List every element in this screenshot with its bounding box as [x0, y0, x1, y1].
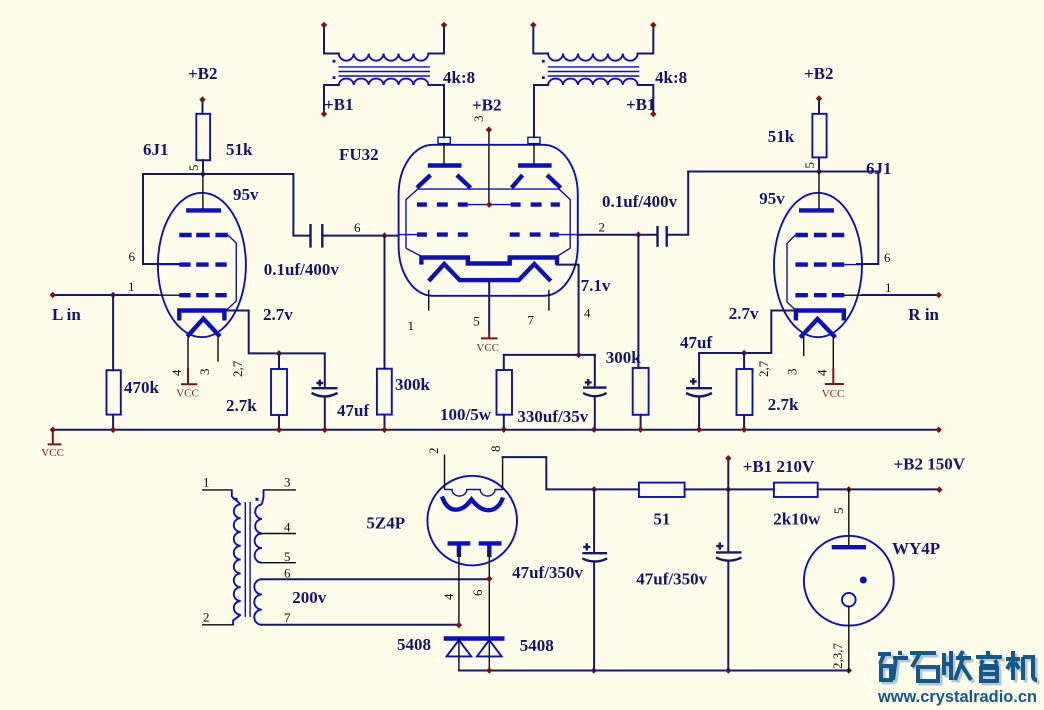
svg-text:R in: R in	[908, 305, 939, 324]
tube FU32 (dual beam tetrode)	[339, 96, 611, 359]
T3 secondary winding 3-4	[255, 504, 262, 533]
resistor 2.7k left	[271, 369, 287, 415]
wire cathode node to 2.7k	[278, 353, 280, 369]
T1 core	[339, 67, 431, 76]
FU32 anode bar left	[428, 163, 462, 167]
node rail cap2	[725, 667, 731, 674]
FU32 anode bar right	[518, 163, 552, 167]
FU32 cathode network	[440, 355, 607, 430]
pin 3 stub left 6J1	[217, 337, 219, 361]
svg-text:2,7: 2,7	[230, 360, 245, 377]
power port VCC right 6J1	[825, 368, 844, 384]
plus sign 47uf right	[690, 378, 697, 385]
svg-text:3: 3	[284, 475, 291, 490]
node rail WY4P	[846, 667, 852, 674]
power port VCC under FU32	[481, 331, 498, 338]
5Z4P cathode wave	[442, 497, 503, 511]
left 6J1 cathode bracket	[179, 311, 224, 321]
svg-text:5: 5	[802, 162, 817, 169]
wire coupling to anode node to screen feedback right	[688, 172, 878, 265]
svg-text:1: 1	[885, 280, 892, 295]
5Z4P heater line	[445, 490, 504, 497]
pin 4 wire FU32 cathode tap	[557, 265, 579, 355]
wire down to 330uf	[594, 355, 596, 387]
wire cathode node to 47uf	[279, 353, 325, 387]
resistor 300k left	[377, 369, 392, 415]
svg-text:VCC: VCC	[476, 342, 499, 354]
svg-text:470k: 470k	[124, 378, 160, 397]
WY4P envelope	[804, 536, 894, 626]
pin 4 wire T3	[262, 533, 295, 535]
tube 5Z4P rectifier	[366, 446, 639, 639]
pin 3 wire FU32 screen feed	[488, 133, 490, 205]
right 6J1 grid2 dashes	[795, 262, 844, 266]
svg-text:5: 5	[831, 508, 846, 515]
svg-text:+B2 150V: +B2 150V	[894, 455, 966, 474]
svg-text:2: 2	[203, 610, 210, 625]
svg-text:VCC: VCC	[822, 388, 845, 400]
node left 300k tap	[381, 232, 387, 239]
node right cathode junction	[741, 350, 747, 357]
5Z4P anode stems	[459, 543, 489, 557]
wire cap1 bottom	[593, 562, 595, 671]
watermark char kuang	[878, 651, 908, 680]
node +B1 junction	[725, 486, 731, 493]
node T1 top-left	[321, 22, 327, 29]
resistor 2.7k right	[737, 369, 753, 415]
svg-text:+B2: +B2	[188, 64, 218, 83]
svg-text:2,3,7: 2,3,7	[830, 643, 845, 670]
svg-text:4k:8: 4k:8	[443, 68, 475, 87]
node right anode	[816, 168, 822, 175]
svg-text:7.1v: 7.1v	[581, 276, 611, 295]
node WY4P top junction	[846, 486, 852, 493]
right 6J1 channel	[578, 64, 942, 430]
svg-text:4: 4	[441, 593, 456, 600]
wire 2.7k to bus	[278, 415, 280, 430]
T2 phase dots	[542, 60, 545, 63]
FU32 beam shield outline	[406, 189, 570, 248]
wire cap1 top	[593, 489, 595, 552]
svg-text:+B1 210V: +B1 210V	[743, 457, 815, 476]
node T2 top-right	[650, 22, 656, 29]
capacitor 47uf/350v second	[716, 551, 742, 553]
FU32 control grid dashes left	[417, 232, 468, 236]
wire cap2 bottom	[727, 561, 729, 671]
right 6J1 cathode bracket	[796, 311, 844, 321]
svg-text:www.crystalradio.cn: www.crystalradio.cn	[877, 687, 1037, 706]
left 6J1 grid2 dashes	[179, 262, 226, 266]
node bus left end	[50, 427, 56, 434]
svg-text:+B2: +B2	[804, 64, 834, 83]
left 6J1 grid2 pin link	[158, 264, 179, 266]
watermark char shou	[944, 651, 971, 680]
node T3-6 to 5Z4P-6	[486, 575, 492, 582]
capacitor 47uf right	[686, 387, 712, 389]
wire 51k to anode node right	[818, 157, 820, 171]
diode D2 5408	[477, 640, 502, 656]
right 6J1 anode bar	[799, 208, 834, 212]
node +B1 terminal	[725, 455, 731, 462]
wire T2 bottom-left lead to FU32 anode	[534, 85, 548, 137]
resistor 100/5w	[497, 370, 513, 415]
plus sign 330uf	[585, 379, 592, 386]
wire anode node to coupling cap	[203, 174, 311, 236]
WY4P anode bar	[832, 545, 866, 549]
wire 470k to bus	[112, 415, 114, 430]
5Z4P envelope	[427, 476, 517, 566]
node +B2 right	[816, 95, 822, 102]
T1 secondary winding	[339, 79, 429, 85]
wire 51k to anode node	[202, 160, 204, 174]
svg-text:51k: 51k	[226, 140, 253, 159]
node R in terminal	[936, 292, 942, 299]
plus sign cap2	[716, 543, 723, 550]
pin 5 wire FU32	[488, 280, 490, 331]
FU32 screen grid dashes right	[511, 202, 560, 206]
right 6J1 grid2 pin link	[844, 264, 862, 266]
pin 4 wire left 6J1	[187, 337, 189, 368]
left 6J1 channel	[50, 64, 431, 430]
svg-text:VCC: VCC	[176, 388, 199, 400]
5Z4P anode bar right	[479, 541, 502, 545]
diode D1 5408	[447, 640, 472, 656]
right 6J1 heater	[800, 319, 835, 338]
capacitor 0.1uf/400v left	[311, 224, 323, 248]
node T3-7 to 5Z4P-4	[456, 622, 462, 629]
svg-text:2: 2	[599, 220, 606, 235]
capacitor 0.1uf/400v right	[658, 226, 667, 247]
svg-text:3: 3	[197, 369, 212, 376]
right 6J1 grid1 pin link	[844, 294, 862, 296]
FU32 screen grid center link	[468, 204, 511, 206]
transformer T2 output 4k:8 right	[530, 22, 687, 138]
wire negative rail	[459, 670, 849, 672]
left 6J1 heater	[187, 319, 220, 337]
svg-text:95v: 95v	[759, 189, 785, 208]
left 6J1 anode pin	[202, 174, 204, 208]
T3 core	[245, 502, 250, 617]
T3 secondary winding 6-7 200v	[254, 579, 262, 625]
node bus 47uf right	[696, 426, 702, 433]
right 6J1 grid1 dashes	[795, 293, 844, 297]
svg-text:47uf/350v: 47uf/350v	[512, 563, 583, 582]
T1 primary winding	[339, 54, 429, 61]
pin 2 wire T3	[203, 624, 233, 626]
resistor 51	[639, 483, 685, 497]
node +B2 terminal	[936, 486, 942, 493]
wire +B1 stub	[727, 461, 729, 489]
resistor 470k	[107, 370, 121, 414]
watermark char shi	[910, 653, 938, 681]
svg-text:1: 1	[203, 475, 210, 490]
pins 2,3,7 wire WY4P	[848, 607, 850, 671]
node rail D2	[486, 667, 492, 674]
wire cathode node to 47uf right	[699, 353, 744, 388]
FU32 beam plate diagonals	[417, 175, 431, 188]
svg-text:47uf: 47uf	[680, 333, 712, 352]
node T1 +B1	[321, 111, 327, 118]
FU32 control grid dashes right	[510, 232, 559, 236]
pin 4 wire 5Z4P	[458, 551, 460, 625]
T3 secondary top lead	[262, 490, 264, 505]
pin 1 stub FU32	[428, 291, 430, 311]
right 6J1 anode pin	[818, 172, 820, 209]
wire down to left 300k	[384, 236, 386, 369]
negative rail	[459, 667, 852, 674]
wire cap to FU32 grid	[322, 235, 398, 237]
watermark char yin	[976, 651, 1002, 681]
resistor 2k10w	[774, 483, 818, 497]
left 6J1 grid3-cathode link	[226, 235, 236, 311]
svg-text:200v: 200v	[292, 588, 327, 607]
node FU32 screen junction	[486, 201, 492, 208]
T3 primary top lead	[232, 490, 241, 505]
power port VCC left 6J1	[181, 368, 197, 384]
pin 4 wire right 6J1	[832, 337, 834, 368]
right 6J1 grid3 dashes	[795, 233, 844, 237]
wire T2 bottom-right lead to +B1	[638, 85, 654, 114]
svg-text:47uf: 47uf	[337, 401, 369, 420]
svg-text:4: 4	[169, 369, 184, 376]
wire 7.1v node rail	[504, 354, 595, 356]
T3 primary bottom lead	[233, 615, 241, 625]
svg-text:+B1: +B1	[324, 95, 354, 114]
wire cap2 top	[727, 489, 729, 551]
T2 primary winding	[548, 54, 638, 61]
svg-text:5408: 5408	[520, 636, 554, 655]
svg-text:3: 3	[785, 369, 800, 376]
svg-text:7: 7	[528, 313, 535, 328]
wire 2.7k to bus right	[743, 415, 745, 430]
5Z4P anode bar left	[448, 541, 471, 545]
svg-text:VCC: VCC	[41, 447, 64, 459]
FU32 anode pin square right	[528, 137, 540, 143]
wire T1 top-left lead	[324, 25, 339, 54]
svg-text:6J1: 6J1	[143, 140, 169, 159]
capacitor 47uf/350v first	[582, 552, 607, 554]
WY4P getter dot	[860, 577, 867, 584]
svg-text:FU32: FU32	[339, 145, 379, 164]
node B+ cap1	[591, 486, 597, 493]
wire left 300k to bus	[384, 415, 386, 430]
resistor 51k left	[196, 114, 210, 160]
svg-text:300k: 300k	[606, 348, 642, 367]
svg-text:5: 5	[284, 549, 291, 564]
wire 2k10w to +B2	[818, 488, 940, 490]
wire right 300k to bus	[638, 368, 640, 430]
svg-text:0.1uf/400v: 0.1uf/400v	[264, 260, 340, 279]
watermark logo (site mark, not circuit)	[877, 651, 1039, 706]
wire cap to feedback riser right	[667, 172, 689, 235]
T1 phase dots	[333, 60, 336, 63]
svg-text:2.7v: 2.7v	[263, 305, 293, 324]
wire 47uf to bus right	[698, 397, 700, 430]
node right 300k tap	[635, 231, 641, 238]
FU32 envelope	[399, 145, 578, 296]
wire FU32 grid to cap right	[578, 234, 658, 236]
filter section	[512, 455, 966, 671]
svg-text:4: 4	[284, 520, 291, 535]
svg-text:5: 5	[473, 314, 480, 329]
svg-text:2: 2	[426, 448, 441, 455]
node bus 2.7k left	[276, 427, 282, 434]
node bus 300k left	[381, 427, 387, 434]
right 6J1 cathode pin wire	[744, 311, 796, 354]
svg-text:330uf/35v: 330uf/35v	[517, 407, 588, 426]
tube WY4P regulator	[804, 489, 940, 670]
node rail cap1	[591, 667, 597, 674]
svg-text:6: 6	[470, 589, 485, 596]
diode cathode bar	[444, 636, 505, 640]
wire anode node to screen feedback	[143, 174, 203, 264]
wire 51 to B1 node	[685, 488, 774, 490]
wire T1 bottom-left lead to +B1	[324, 85, 339, 114]
FU32 anode lead left	[443, 144, 445, 164]
wire T2 top-right lead	[638, 25, 654, 54]
svg-text:51k: 51k	[768, 127, 795, 146]
svg-text:51: 51	[653, 510, 670, 529]
node T2 top-left	[530, 22, 536, 29]
power port VCC bus left	[48, 430, 62, 445]
wire cathode node to 2.7k right	[743, 353, 745, 369]
svg-text:6: 6	[884, 250, 891, 265]
FU32 grid pin links left and right	[399, 234, 578, 236]
wire +B2 to 51k right	[818, 101, 820, 114]
pin 8 wire 5Z4P to filter	[502, 457, 504, 489]
svg-text:2.7v: 2.7v	[729, 304, 759, 323]
node bus 100/5w	[501, 426, 507, 433]
left 6J1 cathode pin wire	[226, 311, 279, 354]
svg-text:2.7k: 2.7k	[226, 396, 257, 415]
node bus right end	[936, 427, 942, 434]
svg-text:300k: 300k	[395, 375, 431, 394]
right 6J1 grid3-cathode link	[787, 235, 796, 311]
svg-text:2k10w: 2k10w	[773, 510, 821, 529]
svg-text:2,7: 2,7	[756, 360, 771, 377]
pin 5 wire T3	[262, 562, 295, 564]
transformer T3 power	[203, 475, 490, 626]
wire down to 100/5w	[503, 355, 505, 370]
svg-text:3: 3	[471, 116, 486, 123]
diodes 5408	[397, 635, 554, 671]
svg-text:L in: L in	[52, 305, 81, 324]
FU32 cathode	[421, 258, 557, 265]
left 6J1 grid1 dashes	[179, 293, 226, 297]
FU32 beam shield to cathode links	[406, 248, 570, 256]
pin 5 wire WY4P	[848, 489, 850, 547]
FU32 anode lead right	[533, 144, 535, 164]
svg-text:2.7k: 2.7k	[768, 395, 799, 414]
wire D1 to rail	[458, 639, 460, 671]
capacitor 47uf left	[312, 387, 338, 389]
node 470k tap	[110, 292, 116, 299]
svg-text:4: 4	[815, 369, 830, 376]
svg-text:7: 7	[284, 610, 291, 625]
resistor 300k right	[633, 368, 649, 415]
pin 7 wire T3 to rectifier	[262, 624, 459, 626]
svg-text:6: 6	[354, 220, 361, 235]
wire T2 top-left lead	[533, 25, 548, 54]
node +B2 left	[199, 96, 205, 103]
svg-text:4: 4	[584, 306, 591, 321]
plus sign cap1	[583, 543, 590, 550]
svg-text:95v: 95v	[233, 185, 259, 204]
T3 primary winding	[234, 504, 241, 614]
node T1 top-right	[441, 22, 447, 29]
node bus 2.7k right	[741, 426, 747, 433]
wire T1 top-right lead	[428, 25, 444, 54]
wire 100/5w to bus	[503, 415, 505, 430]
wire 330uf to bus	[594, 396, 596, 429]
pin 6 wire 5Z4P	[488, 551, 490, 638]
svg-text:6: 6	[284, 566, 291, 581]
plus sign 47uf left	[316, 380, 323, 387]
pin 6 wire T3 to rectifier	[262, 578, 489, 580]
svg-text:5Z4P: 5Z4P	[366, 514, 405, 533]
pin 3 stub right 6J1	[803, 337, 805, 356]
wire +B2 to 51k	[202, 102, 204, 114]
svg-text:8: 8	[488, 446, 503, 453]
pin 3 wire T3	[264, 489, 296, 491]
node L in terminal	[50, 292, 56, 299]
wire 47uf to bus	[324, 397, 326, 430]
T3 secondary winding 4-5	[255, 534, 262, 563]
node bus 47uf left	[322, 427, 328, 434]
left 6J1 grid1 pin link	[158, 294, 179, 296]
pin 7 stub FU32	[548, 291, 550, 311]
svg-text:0.1uf/400v: 0.1uf/400v	[602, 192, 678, 211]
svg-text:6: 6	[129, 249, 136, 264]
ground bus	[41, 426, 942, 459]
wire down to right 300k	[637, 235, 639, 368]
watermark char ji	[1006, 651, 1037, 680]
node left cathode junction	[276, 350, 282, 357]
wire D2 to rail	[488, 639, 490, 671]
T3 phase dots	[235, 498, 238, 501]
wire 470k top	[112, 295, 114, 370]
svg-text:WY4P: WY4P	[892, 539, 940, 558]
tube 6J1 left envelope	[158, 193, 246, 337]
WY4P cathode circle	[842, 593, 856, 607]
svg-text:100/5w: 100/5w	[440, 405, 492, 424]
resistor 51k right	[812, 114, 826, 158]
capacitor 330uf/35v	[583, 386, 607, 388]
node bus 330uf	[591, 426, 597, 433]
pin 1 wire T3	[203, 489, 232, 491]
node FU32 cathode junction	[575, 352, 581, 359]
node bus 300k right	[637, 426, 643, 433]
wire L in to grid	[53, 294, 158, 296]
node bus 470k	[110, 427, 116, 434]
left 6J1 grid3 dashes	[179, 233, 228, 237]
tube 6J1 right envelope	[774, 193, 862, 337]
svg-text:+B2: +B2	[472, 96, 502, 115]
svg-text:1: 1	[408, 318, 415, 333]
FU32 screen grid dashes left	[417, 202, 468, 206]
node T2 +B1	[650, 111, 656, 118]
FU32 anode pin square left	[438, 137, 450, 143]
svg-text:4k:8: 4k:8	[655, 68, 687, 87]
wire T1 bottom-right lead to FU32 anode	[428, 85, 444, 137]
node left anode	[200, 171, 206, 178]
wire ground bus	[53, 429, 939, 431]
svg-text:+B1: +B1	[626, 95, 656, 114]
T2 secondary winding	[548, 79, 638, 85]
wire R in to grid	[862, 294, 939, 296]
svg-text:1: 1	[128, 279, 135, 294]
svg-text:47uf/350v: 47uf/350v	[636, 570, 707, 589]
